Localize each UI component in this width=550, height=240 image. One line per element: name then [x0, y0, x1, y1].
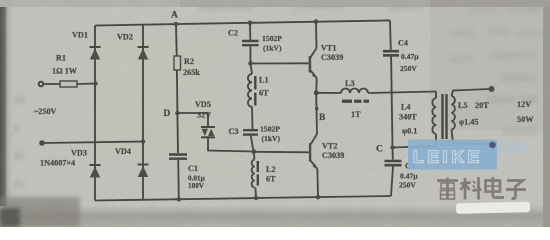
resistor R1 — [60, 81, 77, 87]
transformer primary L4 — [432, 98, 436, 134]
page edges — [0, 0, 14, 227]
wire C2 to node (VT1 base / L1) — [249, 46, 251, 63]
wire top rail corner down to C4 — [389, 20, 392, 49]
transistor VT2 — [309, 134, 318, 197]
wire L4 top lead — [435, 92, 437, 99]
junction VT1 collector top rail — [314, 19, 319, 24]
node C junction — [390, 145, 394, 149]
wire bottom rail — [95, 196, 391, 201]
junction VT2 emitter bottom rail — [316, 195, 320, 199]
capacitor C1 — [169, 155, 187, 159]
junction VT2 base node — [252, 149, 257, 154]
wire L2 to bottom rail — [254, 188, 257, 199]
wire L5 bottom to output — [452, 130, 490, 144]
diode VD2 — [138, 47, 149, 60]
wire C3 to VT2 base node — [251, 136, 254, 152]
wire node to L1 — [251, 64, 253, 75]
diode VD4 — [138, 165, 149, 178]
core L1 — [254, 76, 256, 106]
node A junction dot — [174, 22, 178, 26]
output terminal upper — [489, 86, 495, 92]
white patch — [456, 202, 530, 214]
glyph lei — [437, 178, 458, 200]
wire B down to VT2 — [315, 93, 318, 134]
wire R1 to bridge — [77, 83, 96, 86]
glyph zi — [506, 181, 526, 199]
wire input to R1 — [43, 83, 60, 85]
inductor L3 — [341, 89, 368, 94]
wire rail to C2 — [249, 23, 251, 40]
junction C1/bottom rail — [177, 197, 181, 201]
core L2 — [257, 161, 259, 186]
node junction R1/bridge — [93, 81, 97, 85]
junction L2 bottom rail — [254, 196, 258, 200]
wire second bridge branch (VD2/VD4) — [142, 25, 144, 200]
wire B to L3 — [316, 92, 341, 94]
capacitor C2 — [242, 41, 259, 45]
capacitor C4 — [383, 51, 399, 55]
transformer secondary L5 — [452, 96, 455, 130]
node D junction dot — [175, 111, 179, 115]
transistor VT1 — [309, 22, 318, 93]
node B junction — [314, 90, 319, 95]
diode VD1 — [90, 47, 101, 60]
wire R2 to node D — [176, 70, 179, 113]
diode VD3 — [90, 165, 101, 178]
circuit drawing — [39, 19, 495, 201]
transformer core — [443, 94, 447, 139]
junction VT1 base node — [248, 61, 253, 66]
wire node C to C6 — [392, 148, 394, 160]
inductor L2 — [252, 160, 255, 188]
junction C2 top rail — [248, 21, 253, 26]
wire C1 to bottom rail — [177, 160, 180, 200]
wire VD5 to base node of VT2 — [208, 138, 254, 151]
wire L5 top to output — [452, 89, 491, 96]
node junction lower input/VD2-VD4 — [141, 139, 145, 143]
output terminal lower — [488, 141, 494, 147]
capacitor C6 — [385, 161, 402, 165]
watermark output dot over box — [489, 142, 496, 149]
input terminal upper — [39, 82, 44, 87]
junction small below B — [315, 107, 319, 111]
watermark LEIKE box — [408, 140, 497, 170]
wire L4 bottom to node C — [393, 134, 437, 148]
watermark chinese characters 雷科电子 — [437, 177, 526, 200]
core L3 — [342, 100, 369, 103]
zener pair VD5 — [201, 127, 215, 137]
wire node D down to C1 — [176, 113, 179, 153]
wire L3 to L4 — [368, 92, 436, 94]
capacitor C3 — [243, 130, 258, 134]
wire top rail — [95, 20, 390, 25]
wire base VT1 — [251, 62, 309, 64]
wire A down to R2 — [175, 24, 178, 56]
wire C4 to node C — [391, 57, 392, 148]
input terminal lower — [39, 140, 45, 146]
wire node D to VD5 — [177, 113, 208, 126]
wire base VT2 — [254, 151, 309, 154]
wire C6 to bottom rail — [391, 166, 393, 196]
inductor L1 — [248, 74, 252, 107]
glyph dian — [486, 177, 505, 198]
wire left bridge branch (VD1/VD3) — [94, 26, 96, 201]
wire lower input to bridge — [44, 142, 143, 144]
resistor R2 — [174, 56, 181, 70]
glyph ke — [461, 177, 482, 200]
wire node to L2 — [253, 152, 256, 160]
wire L1 to C3 — [251, 107, 254, 130]
